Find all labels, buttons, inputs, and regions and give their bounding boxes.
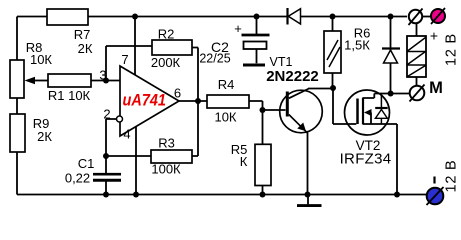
svg-text:10К: 10К	[214, 110, 236, 125]
pot wiper arrow R8	[25, 77, 36, 85]
transistor VT1	[280, 90, 323, 133]
node R6/top rail	[330, 14, 336, 20]
svg-text:2К: 2К	[37, 129, 52, 144]
svg-text:+: +	[430, 28, 438, 44]
wire pin 7	[134, 17, 136, 76]
diode VD2 (flyback across motor)	[382, 47, 400, 49]
wire bottom rail	[17, 194, 429, 196]
resistor R4	[207, 95, 249, 108]
svg-text:7: 7	[121, 52, 128, 67]
wire R6 leads	[332, 17, 334, 89]
op-amp pin2 bubble	[117, 116, 123, 122]
wire C2 leads	[256, 17, 258, 64]
svg-text:2К: 2К	[78, 41, 93, 56]
svg-text:R3: R3	[158, 136, 175, 151]
svg-text:R2: R2	[158, 27, 175, 42]
terminal motor bottom	[410, 86, 425, 101]
svg-text:4: 4	[123, 127, 130, 142]
svg-text:uA741: uA741	[123, 91, 167, 110]
svg-text:6: 6	[174, 86, 181, 101]
terminal -12V (blue)	[427, 188, 444, 205]
node flyback/top rail	[388, 14, 394, 20]
svg-text:2: 2	[103, 107, 110, 122]
node pin7/top rail	[132, 14, 138, 20]
wire pin 2 to C1	[106, 119, 117, 174]
wire R4 to VT1 base and R5	[249, 101, 286, 144]
svg-text:M: M	[429, 79, 443, 97]
wire R9 to bottom rail	[16, 152, 18, 195]
svg-text:R1 10К: R1 10К	[48, 88, 91, 103]
resistor R3	[151, 150, 192, 163]
wire R5 to bottom rail	[262, 186, 264, 195]
wire R3 left	[106, 155, 151, 157]
svg-text:1,5К: 1,5К	[344, 38, 370, 53]
wire R2 right to output node	[192, 48, 198, 102]
svg-text:22/25: 22/25	[199, 52, 230, 66]
resistor R9	[10, 114, 25, 152]
op-amp U1 triangle	[120, 66, 179, 136]
svg-text:C1: C1	[78, 156, 95, 171]
wire op-amp output	[179, 100, 207, 102]
wire VT1 emitter	[307, 133, 309, 195]
svg-text:К: К	[240, 154, 248, 169]
svg-text:IRFZ34: IRFZ34	[340, 151, 392, 168]
node source/bottom rail	[394, 192, 400, 198]
node drain/flyback	[388, 91, 394, 97]
diode VD1 (series, top rail)	[286, 8, 288, 25]
svg-text:100К: 100К	[151, 162, 181, 177]
ground symbol (VT1 emitter)	[297, 204, 322, 207]
wire R8 to R9	[16, 98, 18, 115]
capacitor C2	[242, 34, 270, 37]
wire VT2 source to bottom rail	[363, 124, 397, 195]
node pin2/R3/C1	[103, 153, 109, 159]
node pin4/bottom rail	[133, 192, 139, 198]
node pin3	[103, 78, 109, 84]
terminal +12V board	[409, 10, 422, 23]
wire R8 wiper	[33, 80, 48, 82]
svg-text:+: +	[234, 21, 242, 36]
wire terminal link	[422, 16, 431, 18]
node emitter/bottom rail	[305, 192, 311, 198]
svg-text:200К: 200К	[151, 55, 181, 70]
wire C1 to bottom rail	[105, 180, 107, 195]
label minus (bottom right)	[433, 177, 435, 184]
ground under C2	[243, 64, 265, 67]
node base/R5	[260, 107, 266, 113]
svg-text:10К: 10К	[30, 52, 52, 67]
VT2 body diode	[380, 94, 382, 125]
wire R3 right to output node	[192, 101, 198, 156]
svg-text:12 В: 12 В	[444, 33, 460, 66]
node collector/R6	[330, 85, 336, 91]
wire left column	[16, 17, 18, 61]
node R5/bottom rail	[260, 192, 266, 198]
wire R1 to pin 3	[91, 80, 120, 82]
node C1/bottom rail	[103, 192, 109, 198]
wire motor leads	[416, 24, 418, 86]
wire VT2 body stub	[369, 113, 371, 124]
wire R2 left to pin3 node	[106, 46, 152, 81]
resistor R6 diagonal marks	[327, 40, 340, 67]
svg-text:2N2222: 2N2222	[266, 68, 319, 85]
motor M winding	[407, 36, 426, 77]
terminal +12V wire (pink)	[431, 9, 445, 23]
wire top rail	[17, 16, 407, 18]
wire ground stub VT1	[307, 195, 309, 205]
resistor R5	[255, 144, 271, 185]
capacitor C1	[93, 173, 121, 176]
wire flyback diode	[390, 17, 392, 94]
wire VT1 collector to R6 node	[289, 89, 333, 99]
svg-text:R7: R7	[74, 27, 91, 42]
wire pin 4	[135, 127, 137, 195]
svg-text:VT1: VT1	[270, 55, 293, 69]
resistor R6	[324, 31, 341, 73]
resistor R8 (pot)	[10, 60, 24, 98]
svg-text:0,22: 0,22	[65, 171, 90, 186]
resistor R2	[152, 40, 192, 55]
node output	[195, 98, 201, 104]
resistor R1	[48, 74, 91, 87]
resistor R7	[47, 9, 88, 25]
transistor VT2	[345, 90, 390, 135]
svg-text:12 В: 12 В	[444, 159, 460, 192]
wire VT2 drain	[363, 94, 410, 99]
svg-text:3: 3	[99, 68, 106, 83]
svg-text:R4: R4	[218, 77, 235, 92]
wire gate path	[333, 88, 356, 124]
node C2/top rail	[254, 14, 260, 20]
